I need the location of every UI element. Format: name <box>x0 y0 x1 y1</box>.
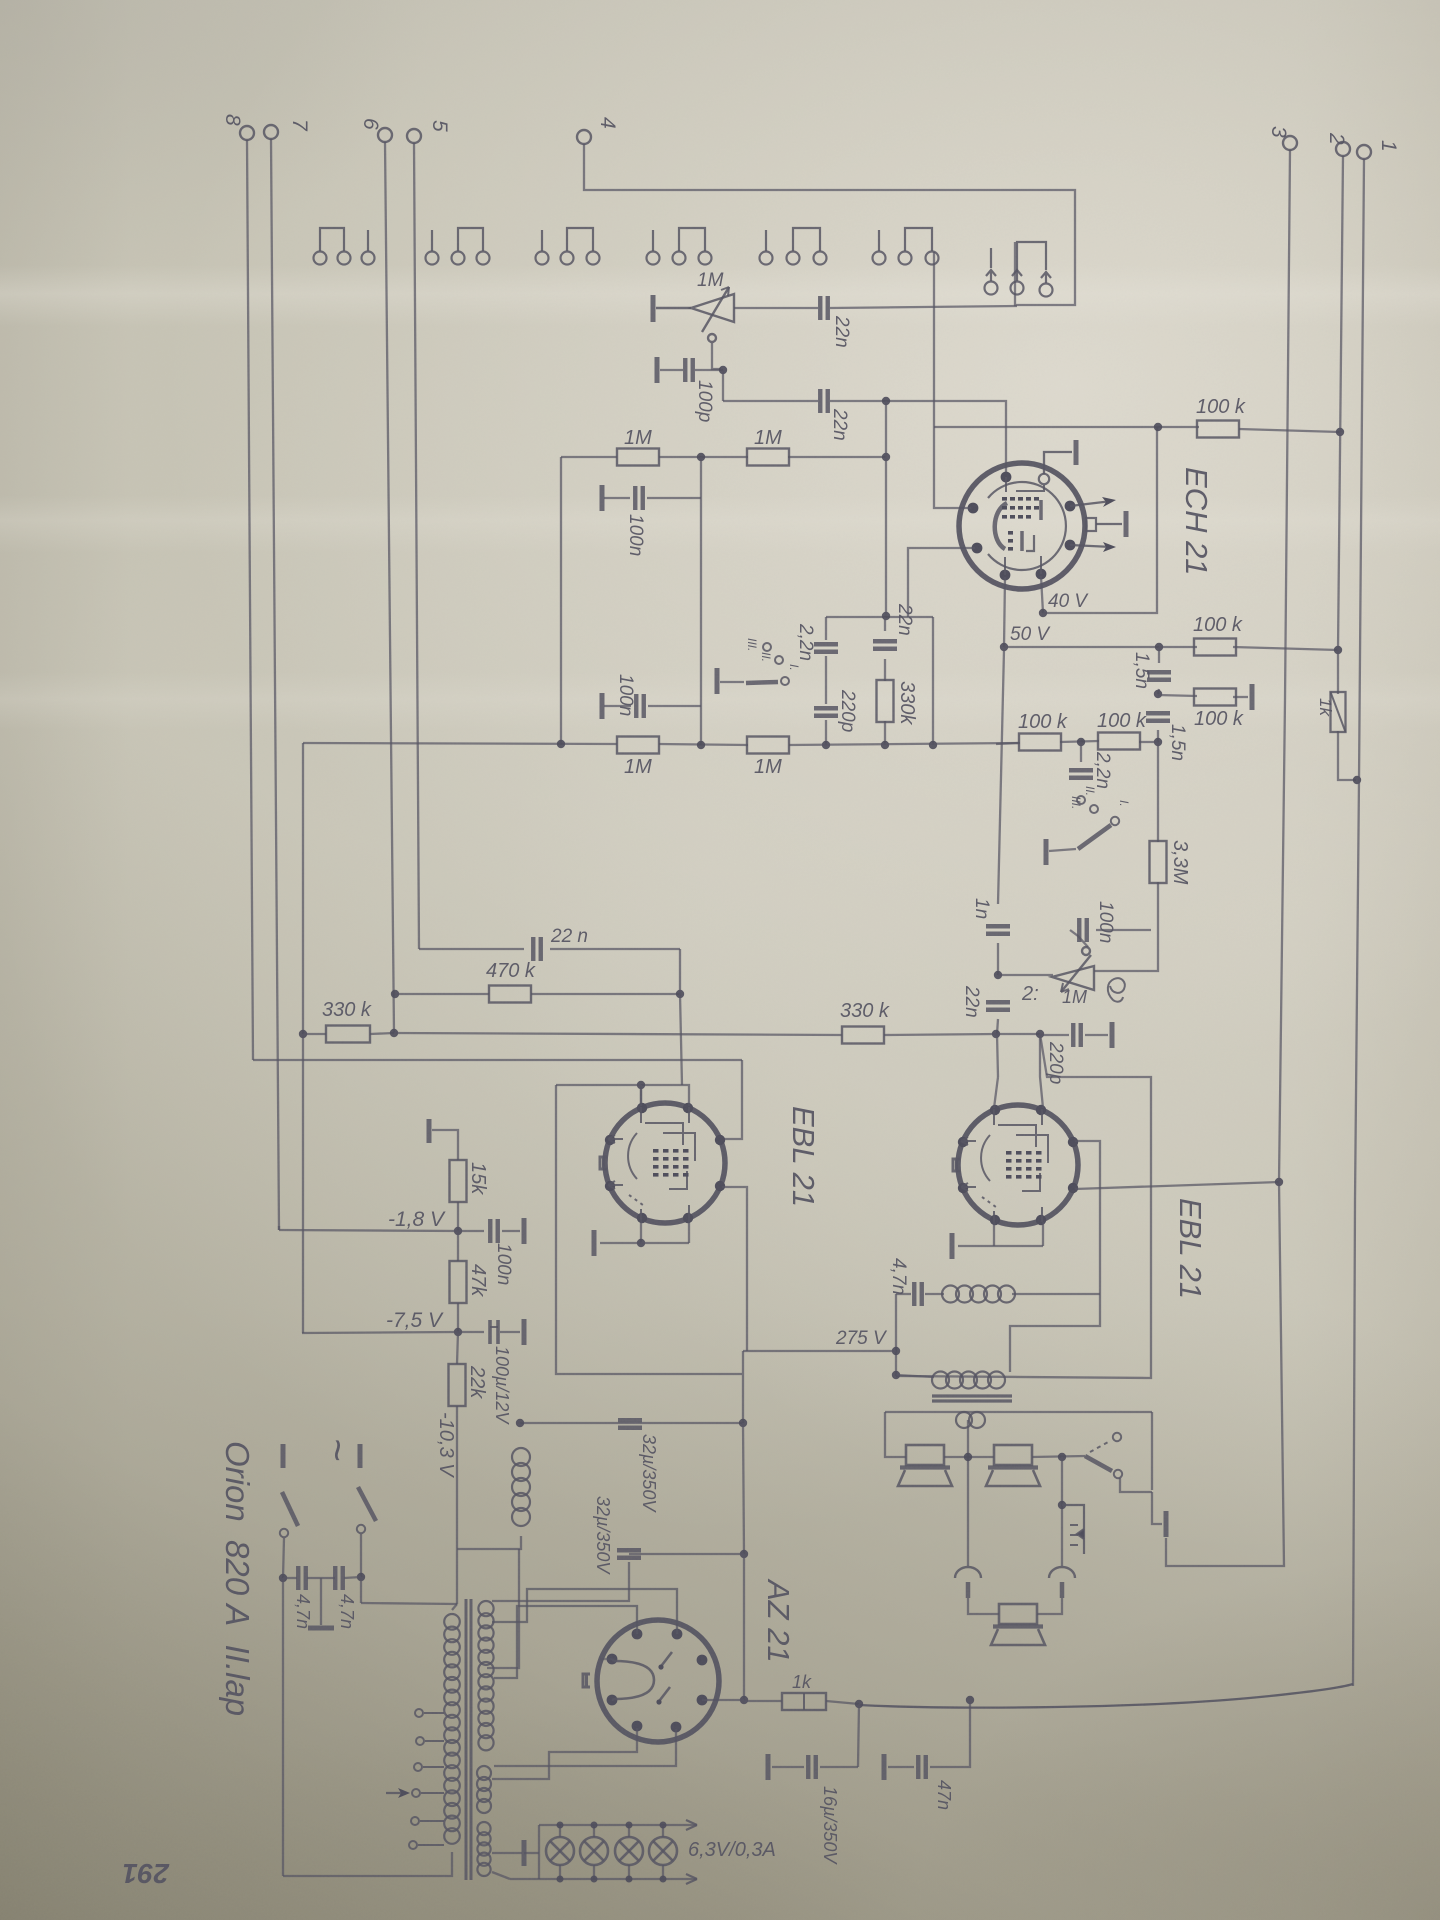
capacitor C 22n c <box>873 641 897 649</box>
wire V1 g1 left <box>908 548 975 617</box>
wire sec right down <box>1151 1412 1153 1490</box>
wire gnd drop <box>1152 1492 1162 1524</box>
wire avc row c <box>788 456 886 458</box>
svg-text:100n: 100n <box>615 674 636 716</box>
wire sp2 to sw <box>1032 1456 1085 1457</box>
junction n39 <box>855 1700 863 1708</box>
capacitor C 4,7n <box>914 1282 922 1306</box>
wire V1 g3 left <box>934 427 971 508</box>
wire B+ drop <box>742 1351 744 1423</box>
wire pole b col <box>360 1577 362 1603</box>
ground gnd 220p b <box>1110 1022 1115 1048</box>
power switch S4 pole b <box>357 1487 376 1533</box>
junction n24 <box>637 1239 645 1247</box>
junction n40v <box>1039 609 1047 617</box>
resistor R 100k b <box>1194 639 1236 656</box>
tube V4 pins <box>607 1629 708 1733</box>
T1 voltage selector arrow <box>386 1788 410 1798</box>
junction n33 <box>516 1419 524 1427</box>
junction n9 <box>1336 428 1344 436</box>
capacitor C 100n c <box>490 1219 498 1243</box>
wire B+ col b <box>743 1554 745 1700</box>
wire V4 heater b <box>494 1729 676 1766</box>
capacitor C 4,7n a <box>298 1566 306 1590</box>
wire avc mid drop <box>700 457 702 745</box>
svg-text:50 V: 50 V <box>1010 624 1051 645</box>
wire sec left down <box>885 1412 906 1457</box>
wire avc bus b <box>659 744 748 745</box>
svg-text:3,3M: 3,3M <box>1169 840 1191 885</box>
wire 50V line b <box>1159 646 1197 648</box>
wire grid left <box>641 1084 682 1086</box>
wire 220p to bus <box>825 720 827 745</box>
junction lamp3 top <box>626 1822 633 1829</box>
wire sec line <box>885 1411 1152 1413</box>
svg-text:330k: 330k <box>896 681 918 725</box>
tone clef mark <box>1108 978 1125 1001</box>
capacitor C 16u <box>808 1755 816 1779</box>
wire V2 cath bottom a <box>640 1220 642 1243</box>
capacitor C 100n tone <box>1079 918 1087 942</box>
wire sw gnd wire <box>720 681 744 683</box>
wire sp1-sp2 <box>944 1456 994 1458</box>
wire G6 tap down <box>933 252 935 427</box>
tube V1 pin g2 (hollow) <box>1039 474 1049 484</box>
svg-text:7: 7 <box>288 119 311 132</box>
wire osc line to box <box>830 306 1017 308</box>
tube V2 EBL21 internals <box>600 1107 695 1220</box>
coil contact group G7 (tuned) <box>985 242 1053 297</box>
wire 50V line c <box>1233 647 1338 650</box>
wire V3 cath bottom a <box>993 1222 995 1246</box>
coil T1 secondary HV <box>478 1601 493 1750</box>
svg-text:Orion 820 A II.lap: Orion 820 A II.lap <box>219 1441 256 1716</box>
wire 2,2n b stub <box>1080 742 1082 762</box>
wire 100n tone right <box>1096 929 1151 931</box>
junction n14 <box>1077 738 1085 746</box>
svg-text:I.: I. <box>1117 800 1131 807</box>
terminal T4 <box>577 117 619 144</box>
ground gnd 100k c <box>1250 684 1255 710</box>
tube V3 EBL21 envelope <box>958 1105 1078 1225</box>
ground gnd V3 <box>950 1233 955 1259</box>
coil contact group G3 <box>536 228 600 265</box>
wire avc bus corner <box>302 743 304 1034</box>
wire j2 to sp3 <box>1037 1598 1062 1614</box>
tube V4 plates <box>656 1652 672 1705</box>
resistor R 330k a <box>326 1026 370 1043</box>
wire y427 line <box>934 426 1199 428</box>
coil T1 winding LV <box>477 1766 491 1813</box>
wire V4 heater a <box>492 1728 637 1779</box>
svg-text:1M: 1M <box>624 427 652 449</box>
junction n22 <box>676 990 684 998</box>
resistor R 330k b <box>842 1027 884 1044</box>
T1 primary taps <box>415 1709 444 1717</box>
wire lamp 2 stubs <box>593 1825 595 1837</box>
svg-text:47n: 47n <box>934 1780 954 1810</box>
wire EBL1 loop top <box>556 1084 641 1086</box>
svg-text:291: 291 <box>122 1858 170 1889</box>
wire 22k top <box>457 1332 458 1364</box>
svg-text:1M: 1M <box>754 756 782 778</box>
wire C3 col down <box>302 1034 304 1333</box>
wire gnd wire b <box>604 705 631 707</box>
wire grid drop EBL1 <box>680 949 682 1085</box>
wire 1,5n a bot <box>1158 689 1159 694</box>
junction busd1 <box>557 740 565 748</box>
wire 330k bus b <box>370 1033 394 1034</box>
junction n34 <box>739 1419 747 1427</box>
wire 4,7n left <box>896 1293 911 1295</box>
svg-text:100n: 100n <box>493 1243 514 1285</box>
wire choke to HV center <box>487 1549 519 1668</box>
jack plug symbol <box>1062 1505 1084 1554</box>
wire y742 b <box>1060 741 1099 742</box>
junction n30 <box>1058 1501 1066 1509</box>
ground gnd 100u <box>522 1319 527 1345</box>
tube V3 EBL21 internals <box>953 1109 1048 1222</box>
terminal T2 <box>1325 132 1350 156</box>
svg-text:2,2n: 2,2n <box>1092 751 1113 789</box>
svg-text:275 V: 275 V <box>835 1328 888 1349</box>
resistor R 22k <box>449 1364 466 1406</box>
wire grid line y401 <box>723 400 818 402</box>
resistor R 470k <box>489 986 531 1003</box>
svg-text:32µ/350V: 32µ/350V <box>639 1434 659 1513</box>
svg-text:1M: 1M <box>1062 987 1087 1007</box>
wire det to pot <box>998 974 1053 976</box>
resistor R 1k output <box>782 1693 826 1710</box>
wire from terminal 8 <box>247 140 253 1060</box>
wire from terminal 6 <box>385 142 394 1033</box>
resistor R 1k top (with diagonal) <box>1331 692 1346 732</box>
wire V1 cath down <box>1004 577 1005 647</box>
wire det col <box>998 650 1004 904</box>
wire lamp 3 stubs <box>628 1825 630 1837</box>
svg-text:2: 2 <box>1325 132 1348 145</box>
junction lamp4 top <box>660 1822 667 1829</box>
wire choke bot <box>457 1536 521 1549</box>
svg-text:2:: 2: <box>1021 983 1039 1005</box>
wire A line down <box>724 1060 742 1139</box>
svg-text:1,5n: 1,5n <box>1167 724 1188 761</box>
wire 32u b line <box>629 1553 744 1555</box>
svg-text:22n: 22n <box>894 603 915 636</box>
ground gnd 100n a <box>600 485 605 511</box>
tube V1 pins <box>968 472 1076 581</box>
svg-text:EBL 21: EBL 21 <box>1173 1198 1208 1299</box>
svg-text:100n: 100n <box>625 514 646 556</box>
capacitor C 100n a <box>635 486 643 510</box>
coil T1 winding heater <box>477 1822 490 1876</box>
wire V4 cathode <box>702 1699 744 1701</box>
svg-text:4,7n: 4,7n <box>293 1594 313 1629</box>
wire 470k row a <box>395 993 489 995</box>
wire 330k v bot <box>884 721 886 745</box>
coil L IF <box>942 1286 1015 1303</box>
svg-text:6: 6 <box>359 118 382 130</box>
junction n17 <box>992 1030 1000 1038</box>
junction n2 <box>882 397 890 405</box>
svg-text:1,5n: 1,5n <box>1131 652 1152 689</box>
wire 100n tone wire <box>1070 930 1088 947</box>
wire lamp bus bottom <box>510 1878 697 1880</box>
wire V3 cath bus <box>958 1245 1043 1247</box>
capacitor C 1,5n b <box>1146 713 1170 721</box>
wire 330k bus c <box>394 1033 842 1035</box>
wire avc bus c <box>789 743 1020 745</box>
wire B+ col <box>743 1423 744 1554</box>
tube V2 EBL21 pins <box>605 1103 725 1223</box>
svg-text:4,7n: 4,7n <box>888 1258 909 1295</box>
headphone jack J1 <box>955 1567 981 1598</box>
junction n37 <box>279 1574 287 1582</box>
tube V4 plate wires <box>492 1589 677 1678</box>
wire 22k bottom col <box>456 1406 458 1604</box>
wire 22n c bot <box>884 659 886 681</box>
capacitor C 47n <box>918 1755 926 1779</box>
svg-text:40 V: 40 V <box>1048 591 1089 612</box>
svg-text:II.: II. <box>1083 786 1097 796</box>
wire lamp left <box>538 1825 540 1879</box>
svg-text:-7,5 V: -7,5 V <box>386 1309 444 1332</box>
wire j1 to sp3 <box>968 1598 999 1614</box>
svg-text:6,3V/0,3A: 6,3V/0,3A <box>688 1839 776 1861</box>
svg-text:1M: 1M <box>624 756 652 778</box>
wire 1,5n a stub <box>1158 647 1160 663</box>
wire 220p b wire <box>1040 1034 1069 1036</box>
wire grid to pin <box>640 1085 642 1106</box>
ground gnd V2 <box>592 1230 597 1256</box>
svg-text:220p: 220p <box>837 689 858 732</box>
svg-text:III.: III. <box>1069 796 1083 809</box>
terminal T7 <box>264 119 311 139</box>
junction n31 <box>454 1227 462 1235</box>
wire line 1 <box>1353 159 1364 1686</box>
resistor R 100k d <box>1098 733 1140 750</box>
wire A line <box>253 1059 742 1061</box>
svg-text:2,2n: 2,2n <box>795 623 816 661</box>
junction n27 <box>892 1371 900 1379</box>
junction n16 <box>994 971 1002 979</box>
wire switch feed <box>361 1603 457 1604</box>
coil T2 secondary <box>956 1412 985 1428</box>
potentiometer P2 1M tone <box>1052 947 1094 992</box>
svg-text:1M: 1M <box>754 427 782 449</box>
wire pole a col <box>282 1578 284 1876</box>
resistor R 1M c <box>617 737 659 754</box>
wire lamp bus top <box>539 1824 697 1826</box>
tube V1 inner shield <box>988 482 1066 570</box>
svg-text:1M: 1M <box>697 270 724 291</box>
wire lamp 2 stubs b <box>593 1865 595 1879</box>
svg-text:4: 4 <box>596 117 619 129</box>
ground gnd 47n <box>882 1754 887 1780</box>
tube V3 EBL21 pins <box>958 1105 1078 1225</box>
wire y1423 line <box>520 1422 743 1424</box>
ground gnd 15k <box>427 1119 432 1143</box>
output transformer T2 core <box>932 1396 1012 1401</box>
resistor R 3,3M <box>1150 841 1167 883</box>
junction n35 <box>740 1550 748 1558</box>
speaker switch S3 <box>1085 1433 1122 1478</box>
wire V3 loop <box>896 1034 1151 1378</box>
capacitor C 22n top <box>533 937 541 961</box>
resistor R 47k <box>450 1261 467 1303</box>
svg-text:47k: 47k <box>467 1264 489 1297</box>
wire det col d <box>997 1034 998 1077</box>
tube V1 grid leads <box>1005 477 1044 575</box>
junction lamp1 top <box>557 1822 564 1829</box>
wire cap b right <box>344 1577 361 1578</box>
tube V4 AZ21 envelope <box>597 1620 719 1742</box>
wire V3 grid stub <box>994 1077 998 1108</box>
resistor R 100k top <box>1197 421 1239 438</box>
wire det col b <box>997 943 999 975</box>
resistor R 330k v <box>877 680 894 722</box>
svg-text:100p: 100p <box>694 380 715 422</box>
ground gnd 100n c <box>522 1218 527 1244</box>
wire y617 line <box>826 616 933 618</box>
tube V1 grids <box>1002 497 1039 551</box>
wire lamp 1 stubs b <box>559 1865 561 1879</box>
resistor R 1M a <box>617 449 659 466</box>
wire lamp 3 stubs b <box>628 1865 630 1879</box>
wire 275V drop <box>895 1294 897 1376</box>
switch S2 contacts <box>1077 796 1119 825</box>
wire 100k top to line2 <box>1239 429 1340 432</box>
wire V1 anode down <box>1041 576 1043 613</box>
svg-text:330 k: 330 k <box>840 1000 890 1022</box>
svg-text:-1,8 V: -1,8 V <box>388 1208 446 1231</box>
coil contact group G6 <box>873 228 939 265</box>
junction n26 <box>892 1347 900 1355</box>
wire V3 diode to line3 <box>1075 1182 1279 1189</box>
junction n40 <box>966 1696 974 1704</box>
wire V2 cath bus <box>600 1242 689 1244</box>
wire 220p b gnd wire <box>1085 1034 1108 1036</box>
svg-text:470 k: 470 k <box>486 960 536 982</box>
junction lamp1 bot <box>557 1876 564 1883</box>
wire 1,5n b bot <box>1157 730 1159 742</box>
wire V3 sg stub <box>1040 1034 1043 1108</box>
wire cath drop <box>932 617 934 745</box>
ground top of V1 <box>1044 440 1076 474</box>
coil L choke <box>512 1448 530 1526</box>
svg-text:15k: 15k <box>467 1162 489 1195</box>
junction lamp4 bot <box>660 1876 667 1883</box>
svg-text:22 n: 22 n <box>550 926 588 947</box>
wire 1k to line1 <box>1338 731 1356 780</box>
svg-text:EBL 21: EBL 21 <box>786 1106 821 1207</box>
wire terminal 4 to coil box <box>584 144 1075 305</box>
wire 100u gnd wire <box>500 1331 520 1333</box>
wire line 2 <box>1338 156 1343 650</box>
junction n28 <box>1058 1453 1066 1461</box>
wire coil left stub <box>925 1293 944 1295</box>
wire avc row b <box>659 456 748 458</box>
wire V3 cath bottom b <box>1042 1222 1044 1246</box>
wire 16u wires <box>820 1766 858 1768</box>
svg-text:I.: I. <box>787 664 801 671</box>
junction n32 <box>454 1328 462 1336</box>
svg-text:100µ/12V: 100µ/12V <box>492 1346 512 1425</box>
wire 330k bus e <box>996 1033 1040 1035</box>
wire 100n c wire <box>458 1230 484 1232</box>
wire n2 to n5 <box>885 401 887 616</box>
wire primary bottom <box>283 1852 452 1876</box>
wire V2 anode right <box>722 1187 747 1351</box>
resistor R 100k e <box>1019 734 1061 751</box>
switch S2 lever <box>1078 825 1111 849</box>
wire heater to lamp <box>492 1852 522 1854</box>
svg-text:~: ~ <box>315 1438 359 1461</box>
wire 47n drop <box>930 1700 970 1767</box>
junction n8 <box>822 741 830 749</box>
lamp dial lamp 2 <box>580 1837 608 1865</box>
tube V4 filament <box>614 1661 654 1699</box>
wire -1,8V line <box>279 1230 458 1231</box>
wire pot wiper to 100p node <box>712 343 721 369</box>
wire V3 anode right <box>1010 1141 1100 1372</box>
resistor R 100k c <box>1194 689 1236 706</box>
capacitor C 100n b <box>636 694 644 718</box>
wire det col c <box>997 1019 998 1034</box>
capacitor C 4,7n b <box>335 1566 343 1590</box>
svg-text:16µ/350V: 16µ/350V <box>820 1786 840 1865</box>
wire sw to gnd line <box>1120 1478 1152 1492</box>
coil contact group G4 <box>647 228 712 265</box>
wire 22n top row a <box>419 948 524 950</box>
wire pole b down <box>360 1534 362 1577</box>
wire 100n c gnd wire <box>502 1230 520 1232</box>
wire gnd to 100p <box>660 369 683 371</box>
potentiometer P1 1M <box>653 287 734 342</box>
svg-text:100 k: 100 k <box>1097 710 1147 732</box>
speaker SP3 <box>991 1604 1045 1645</box>
wire 47k top <box>457 1231 459 1261</box>
wire 16u gnd wire <box>772 1766 804 1768</box>
junction lamp2 bot <box>591 1876 598 1883</box>
junction n3 <box>697 453 705 461</box>
coil contact group G1 <box>314 228 375 265</box>
wire 22n top row b <box>550 948 680 950</box>
tube V1 connector to ground right <box>1086 511 1126 537</box>
speaker SP2 <box>986 1445 1040 1486</box>
headphone jack J2 <box>1049 1567 1075 1598</box>
wire jack2 col <box>1061 1457 1063 1566</box>
wire V2 grid stub <box>640 1085 642 1106</box>
junction n6 <box>929 741 937 749</box>
tube V4 heater plug <box>583 1674 590 1687</box>
capacitor C 22n osc <box>820 296 828 320</box>
wire lamp 1 stubs <box>559 1825 561 1837</box>
ground gnd S2 <box>1044 839 1049 865</box>
junction n11 <box>1334 646 1342 654</box>
wire avc row a <box>561 456 617 458</box>
tube V2 EBL21 envelope <box>605 1103 725 1223</box>
svg-text:22n: 22n <box>829 408 850 441</box>
wire lamp gnd stub <box>524 1852 539 1854</box>
wire cap b to avc <box>648 705 701 707</box>
junction n4 <box>882 453 890 461</box>
wire pot to osc cap <box>734 307 818 309</box>
tube V1 output arrows <box>1070 497 1116 552</box>
wire 50V line <box>1004 646 1159 648</box>
svg-text:1k: 1k <box>792 1672 812 1692</box>
wire cap a out <box>647 497 701 499</box>
